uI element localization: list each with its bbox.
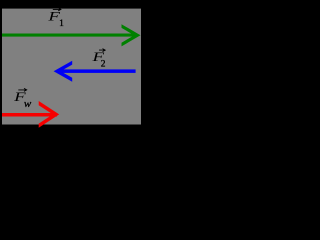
force arrow Fw (red, pointing right): [2, 101, 59, 128]
gray block (body on which forces act): [2, 9, 141, 125]
label Fw (vector F sub w): [13, 88, 32, 110]
label F2 (vector F sub 2): [91, 49, 105, 70]
label F1 (vector F sub 1): [47, 8, 64, 29]
force arrow F2 (blue, pointing left): [54, 61, 136, 82]
force arrow F1 (green, pointing right): [2, 24, 141, 46]
svg-text:1: 1: [59, 19, 64, 29]
svg-text:2: 2: [101, 60, 106, 70]
svg-text:w: w: [24, 98, 32, 110]
